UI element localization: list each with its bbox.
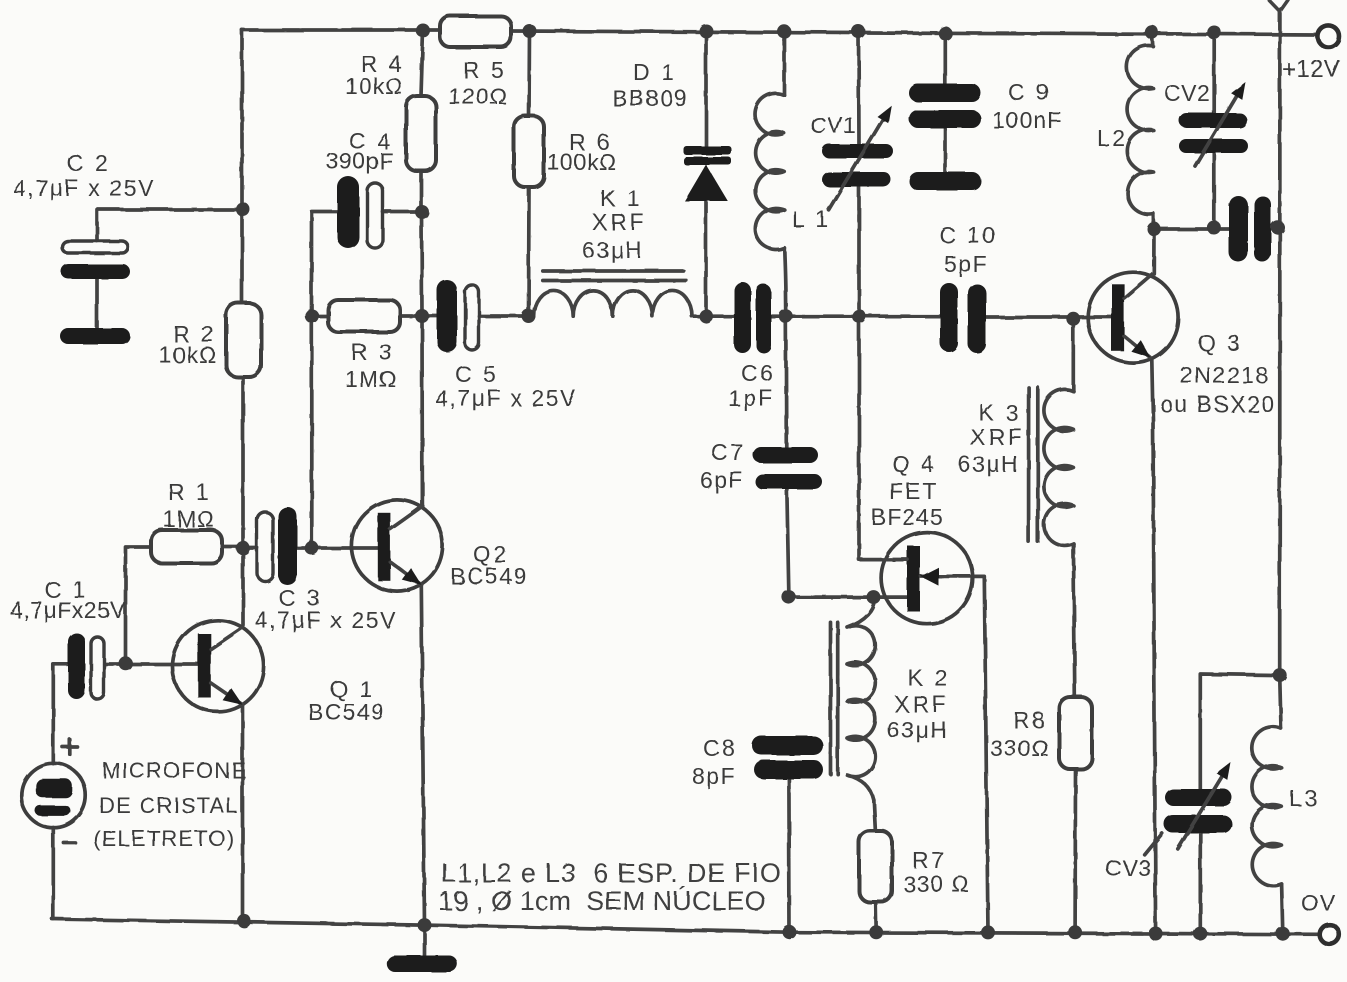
svg-text:C8: C8 [703, 735, 737, 761]
resistor R4 [406, 96, 436, 171]
svg-text:390pF: 390pF [326, 148, 394, 174]
wire R6 branch [529, 31, 530, 316]
wire Q3 collector tank link [1154, 227, 1280, 229]
capacitor C1 [68, 633, 104, 699]
svg-text:63μH: 63μH [958, 451, 1019, 477]
svg-text:CV2: CV2 [1164, 80, 1210, 106]
transistor Q3 [1088, 272, 1178, 362]
wire CV3 branch [1200, 674, 1279, 934]
svg-text:2N2218: 2N2218 [1180, 362, 1270, 388]
resistor R6 [514, 116, 544, 187]
svg-text:5pF: 5pF [944, 251, 988, 277]
transistor Q2 [351, 500, 442, 591]
wire R3 leads [312, 314, 423, 318]
wire Q4 source node [789, 595, 908, 599]
resistor R1 [151, 530, 222, 563]
wire R3 node to Q2 base [310, 316, 314, 548]
resistor R2 [226, 303, 261, 377]
inductor K1 [529, 290, 692, 316]
wire K3 branch [1073, 319, 1075, 932]
capacitor C3 [257, 507, 297, 585]
trimmer CV1 [822, 105, 893, 210]
svg-text:R8: R8 [1013, 707, 1047, 733]
wire CV1 node to Q4 drain [859, 316, 908, 559]
svg-text:BC549: BC549 [450, 563, 528, 589]
svg-text:100kΩ: 100kΩ [547, 149, 617, 175]
capacitor C8 [752, 736, 823, 779]
inductor K3 [1044, 389, 1073, 545]
svg-text:OV: OV [1301, 890, 1336, 916]
svg-text:330Ω: 330Ω [990, 735, 1050, 761]
K1 core lines [543, 271, 687, 281]
svg-text:+12V: +12V [1282, 56, 1341, 83]
svg-text:CV3: CV3 [1105, 855, 1151, 881]
wire C1 right lead [104, 662, 198, 666]
svg-text:L2: L2 [1097, 125, 1128, 151]
capacitor C10 [940, 283, 986, 353]
inductor L3 [1252, 727, 1282, 886]
svg-text:R 1: R 1 [168, 479, 211, 505]
svg-text:K 2: K 2 [908, 665, 950, 691]
capacitor C2 [61, 241, 130, 279]
svg-text:K 1: K 1 [600, 185, 642, 211]
svg-text:C 10: C 10 [939, 222, 998, 248]
wire ground stub [423, 925, 427, 957]
svg-text:C7: C7 [711, 439, 745, 465]
svg-text:C6: C6 [741, 360, 775, 386]
wire L2 leads [1152, 32, 1154, 229]
svg-text:XRF: XRF [970, 424, 1025, 450]
wire C8 bottom lead [787, 780, 791, 933]
svg-text:BB809: BB809 [612, 85, 689, 111]
wire Q3 emitter long drop [1152, 360, 1156, 934]
svg-text:BC549: BC549 [308, 699, 386, 725]
terminal 0V [1320, 925, 1340, 945]
svg-text:19 , Ø 1cm SEM NÚCLEO: 19 , Ø 1cm SEM NÚCLEO [438, 885, 766, 916]
wire C2 branch [97, 210, 243, 331]
capacitor C5 [437, 280, 479, 352]
svg-text:C 2: C 2 [67, 150, 110, 176]
transistor Q1 [172, 620, 264, 712]
microphone plus sign [63, 740, 78, 755]
wire top +12V rail [242, 30, 1317, 35]
trimmer CV3 [1164, 762, 1232, 849]
capacitor C4 [337, 176, 383, 248]
capacitor C9 [909, 84, 981, 128]
capacitor C7 [753, 447, 822, 489]
transistor Q4 FET [881, 532, 973, 624]
capacitor C6 [734, 282, 771, 353]
resistor R3 [328, 300, 400, 332]
svg-text:1MΩ: 1MΩ [345, 366, 397, 392]
inductor L2 [1127, 46, 1154, 215]
svg-text:120Ω: 120Ω [448, 83, 508, 109]
wire CV1 branch [857, 32, 861, 317]
svg-text:XRF: XRF [894, 691, 949, 717]
K3 core lines [1029, 388, 1038, 542]
svg-text:10kΩ: 10kΩ [345, 73, 403, 99]
terminal +12V [1317, 25, 1339, 47]
svg-text:DE CRISTAL: DE CRISTAL [99, 793, 239, 818]
wire C7 branch [786, 316, 789, 597]
antenna [1269, 0, 1288, 12]
svg-text:8pF: 8pF [692, 763, 736, 789]
svg-text:D 1: D 1 [633, 59, 676, 85]
svg-text:10kΩ: 10kΩ [159, 342, 217, 368]
svg-text:4,7μFx25V: 4,7μFx25V [10, 597, 126, 623]
ground blob under C2 [60, 328, 130, 344]
wire bottom ground rail [52, 919, 1320, 934]
wire microphone branch [53, 664, 69, 919]
wire L3 leads [1280, 675, 1283, 934]
CV3 label leader line [1145, 833, 1163, 854]
antenna coupling capacitor [1229, 196, 1271, 262]
wire Q3 collector lead [1152, 229, 1156, 274]
svg-text:L 1: L 1 [792, 206, 831, 232]
svg-text:C 5: C 5 [455, 361, 498, 387]
svg-text:L1,L2 e L3 6 ESP. DE FIO: L1,L2 e L3 6 ESP. DE FIO [441, 858, 782, 888]
svg-text:4,7μF x 25V: 4,7μF x 25V [255, 607, 397, 633]
microphone minus sign [63, 841, 75, 845]
wire K2 to R7 [874, 800, 876, 932]
svg-text:100nF: 100nF [992, 107, 1062, 133]
svg-text:ou BSX20: ou BSX20 [1160, 391, 1276, 417]
trimmer CV2 [1179, 82, 1248, 166]
svg-text:63μH: 63μH [887, 717, 948, 743]
svg-text:L3: L3 [1289, 785, 1320, 811]
wire C5 leads [422, 314, 529, 318]
wire C3 leads [243, 546, 378, 550]
wire Q2 collector lead [420, 316, 424, 506]
svg-text:4,7μF x 25V: 4,7μF x 25V [435, 385, 577, 411]
svg-text:(ELETRETO): (ELETRETO) [93, 826, 235, 851]
wire Q4 gate to ground [921, 576, 988, 932]
svg-text:CV1: CV1 [810, 112, 856, 138]
svg-text:1pF: 1pF [728, 385, 775, 411]
wire R1 branch [126, 547, 244, 664]
wire D1 branch [704, 31, 708, 316]
ground blob under C9 [909, 172, 981, 190]
svg-text:K 3: K 3 [979, 400, 1021, 426]
svg-text:Q 4: Q 4 [892, 451, 937, 477]
svg-text:1MΩ: 1MΩ [163, 506, 215, 532]
wire CV2 branch [1212, 33, 1216, 228]
K2 core lines [831, 622, 838, 774]
svg-text:63μH: 63μH [582, 237, 643, 263]
svg-text:FET: FET [889, 478, 938, 504]
wire R4 branch [421, 31, 423, 317]
svg-text:MICROFONE: MICROFONE [102, 758, 247, 783]
svg-text:C 9: C 9 [1008, 79, 1051, 105]
inductor L1 [755, 93, 784, 249]
svg-text:330 Ω: 330 Ω [903, 871, 970, 897]
svg-text:4,7μF x 25V: 4,7μF x 25V [13, 175, 155, 201]
resistor R5 [440, 16, 511, 47]
svg-text:R 3: R 3 [351, 339, 394, 365]
resistor R7 [859, 831, 892, 902]
svg-text:R 5: R 5 [463, 57, 506, 83]
resistor R8 [1059, 697, 1092, 769]
wire C9 branch [943, 33, 947, 172]
svg-text:6pF: 6pF [700, 467, 744, 493]
wire L1 leads [784, 31, 786, 316]
microphone body [21, 763, 85, 827]
svg-text:Q 3: Q 3 [1198, 330, 1243, 356]
svg-text:BF245: BF245 [871, 504, 944, 530]
wire main oscillator node (K1 end, D1, C6, L1, CV1, C10, Q3 base) [692, 314, 1112, 318]
wire left vertical branch (rail to Q1 collector/emitter to ground) [242, 30, 243, 921]
ground symbol [387, 956, 458, 973]
wire C4 leads [312, 212, 422, 317]
wire antenna mast down to L3 node [1278, 11, 1282, 676]
svg-text:XRF: XRF [592, 209, 647, 235]
inductor K2 [847, 597, 875, 800]
svg-text:R7: R7 [912, 847, 946, 873]
wire Q2 emitter drop [421, 585, 424, 925]
diode D1 varactor [684, 146, 732, 201]
